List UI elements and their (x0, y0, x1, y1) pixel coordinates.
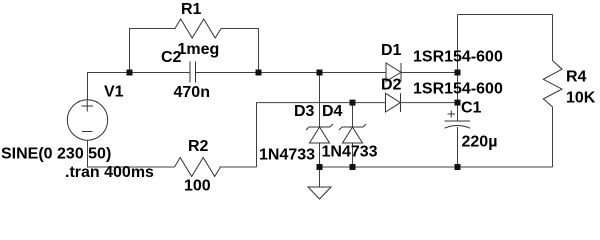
svg-text:SINE(0 230 50): SINE(0 230 50) (1, 146, 111, 163)
wire R4 bottom lead (552, 107, 554, 167)
svg-text:R2: R2 (188, 138, 209, 155)
svg-text:.tran 400ms: .tran 400ms (65, 164, 154, 181)
voltage source V1 (67, 100, 107, 140)
svg-text:R4: R4 (566, 69, 587, 86)
wire R2 right to riser corner (220, 166, 257, 168)
svg-text:D2: D2 (381, 77, 402, 94)
svg-text:R1: R1 (181, 1, 202, 18)
svg-text:1N4733: 1N4733 (322, 144, 378, 161)
wire right vertical from top corner down to C1 top plate (457, 15, 459, 122)
wire D3 cathode up to row A (319, 73, 321, 128)
wire D1 cathode to right node (401, 72, 458, 74)
svg-text:220µ: 220µ (462, 134, 498, 151)
resistor R1 (175, 19, 221, 38)
svg-text:D4: D4 (322, 103, 343, 120)
diode D1 (386, 63, 401, 82)
ground (308, 187, 331, 199)
svg-text:V1: V1 (104, 84, 124, 101)
svg-text:1SR154-600: 1SR154-600 (413, 81, 503, 98)
svg-text:100: 100 (184, 178, 211, 195)
resistor R4 (543, 61, 562, 107)
svg-text:D1: D1 (381, 42, 402, 59)
wire R1 loop left vertical and top to R1 left lead (130, 29, 176, 73)
svg-text:470n: 470n (174, 84, 210, 101)
zener diode D4 (343, 127, 363, 143)
capacitor C2 (190, 62, 196, 83)
diode D2 (386, 93, 401, 112)
svg-text:D3: D3 (294, 103, 315, 120)
wire D4 anode down to ground bus (352, 143, 354, 167)
capacitor C1 polarized (445, 120, 471, 122)
resistor R2 (175, 158, 221, 177)
svg-text:1meg: 1meg (178, 41, 220, 58)
wire R4 top lead (552, 15, 554, 61)
svg-text:C1: C1 (461, 100, 482, 117)
wire riser from R2 row up and row B to D2 anode (257, 103, 386, 167)
svg-text:1N4733: 1N4733 (259, 147, 315, 164)
wire ground bus bottom (320, 166, 553, 168)
svg-text:C2: C2 (161, 49, 182, 66)
wire D3 anode down to ground bus (319, 143, 321, 167)
wire R1 right lead and right vertical down (221, 29, 259, 73)
zener diode D3 (310, 127, 330, 143)
wire D4 cathode up to row B (352, 103, 354, 127)
wire ground stem (319, 167, 321, 187)
wire top right horizontal to R4 (458, 14, 553, 16)
wire C1 bottom lead (457, 127, 459, 167)
svg-text:1SR154-600: 1SR154-600 (413, 49, 503, 66)
svg-text:10K: 10K (566, 90, 596, 107)
wire row A from C2 right plate to D1 anode (196, 72, 387, 74)
node junction dots (127, 70, 133, 76)
wire node A top: V1 plus terminal riser and row to C2 left plate (88, 73, 191, 100)
wire D2 cathode to right node (401, 102, 458, 104)
wire V1 minus terminal stem and bottom row to R2 left (88, 140, 175, 167)
